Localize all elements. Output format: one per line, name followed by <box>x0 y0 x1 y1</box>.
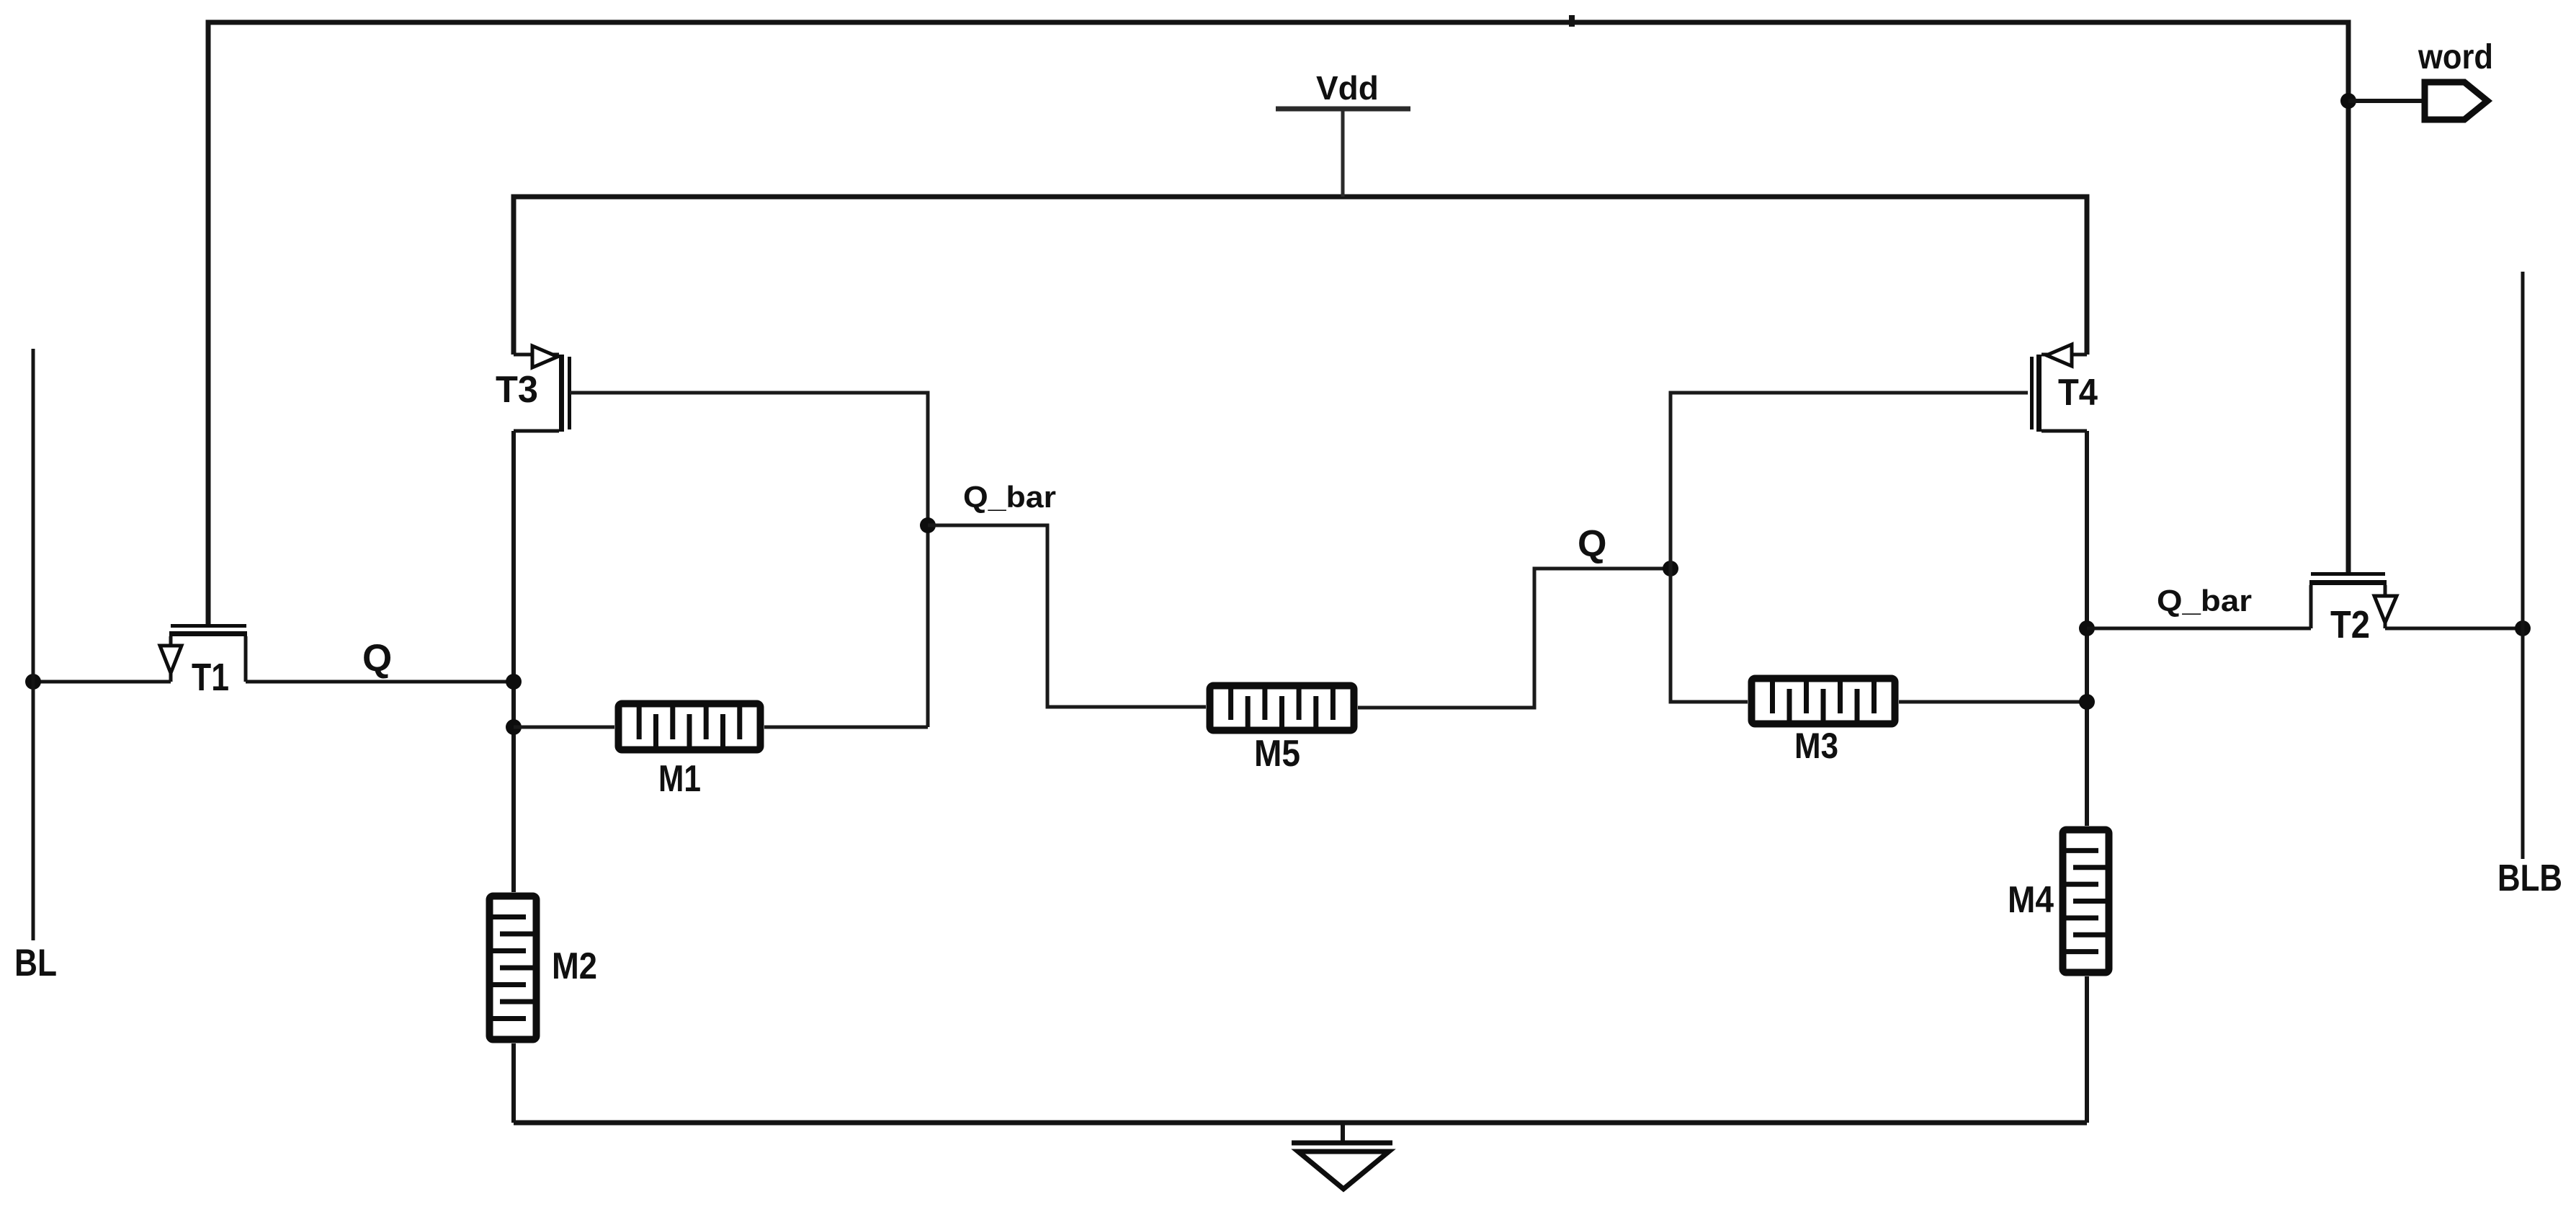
node BLB junction <box>2515 620 2531 636</box>
transistor T3 channel bar <box>559 355 564 432</box>
transistor T3 gate bar <box>568 357 571 429</box>
transistor T4 gate bar <box>2030 357 2034 429</box>
wire M3 right lead <box>1899 700 2087 704</box>
wire bottom rail <box>514 1121 2087 1126</box>
wire T2 to BLB <box>2385 627 2523 631</box>
svg-text:M3: M3 <box>1794 726 1838 766</box>
svg-text:M4: M4 <box>2008 879 2054 921</box>
wire BL line <box>32 349 35 940</box>
port word pointer <box>2425 82 2487 120</box>
transistor T2 left stub <box>2309 585 2313 628</box>
transistor T4 source stub <box>2041 353 2087 357</box>
node M1 branch <box>506 719 522 735</box>
svg-text:M2: M2 <box>552 945 597 987</box>
power Vdd symbol bar <box>1276 107 1410 112</box>
svg-text:M1: M1 <box>658 758 701 800</box>
transistor T2 right stub <box>2384 585 2387 628</box>
wire T1 to Q column <box>246 680 514 684</box>
wire Q_bar to T2 <box>2087 627 2311 631</box>
svg-text:Q: Q <box>1578 523 1606 565</box>
wire T4 drain column <box>2085 431 2089 826</box>
svg-text:word: word <box>2418 38 2493 76</box>
node tick on top rail <box>1569 15 1575 27</box>
ground stem <box>1341 1123 1345 1144</box>
transistor T2 arrow <box>2374 596 2397 623</box>
transistor T4 channel bar <box>2036 355 2041 432</box>
node Q column upper <box>506 674 522 690</box>
node Q right <box>1663 561 1678 576</box>
ground triangle <box>1298 1152 1389 1189</box>
svg-text:Vdd: Vdd <box>1316 69 1379 107</box>
node word junction <box>2340 93 2356 109</box>
transistor T3 drain stub <box>514 429 559 433</box>
transistor T1 left stub <box>169 636 173 682</box>
transistor T3 source stub <box>514 353 559 357</box>
node Q_bar right <box>2079 620 2095 636</box>
wire top rail <box>208 22 2348 624</box>
transistor T1 gate bar <box>171 624 246 628</box>
wire M1 left lead <box>514 726 614 729</box>
memristor M5 <box>1210 686 1354 731</box>
node BL junction <box>25 674 41 690</box>
wire BLB line <box>2521 272 2525 859</box>
wire M4 to bottom rail <box>2085 976 2089 1123</box>
transistor T1 channel bar <box>169 631 247 636</box>
transistor T4 drain stub <box>2041 429 2087 433</box>
svg-text:T3: T3 <box>496 369 538 411</box>
svg-text:T1: T1 <box>192 656 229 699</box>
transistor T1 right stub <box>244 636 248 682</box>
svg-text:Q_bar: Q_bar <box>2157 584 2252 618</box>
memristor M1 <box>619 704 761 750</box>
node M3 right junction <box>2079 694 2095 710</box>
svg-text:Q: Q <box>362 637 392 680</box>
transistor T2 gate bar <box>2311 572 2385 576</box>
wire Vdd rail <box>514 197 2087 355</box>
wire Q_bar jog to M5 <box>928 525 1206 707</box>
power Vdd stem <box>1341 109 1345 197</box>
wire BL to T1 <box>33 680 171 684</box>
wire M5 to Q node <box>1358 569 1671 708</box>
wire T3 drain column <box>511 431 516 892</box>
memristor M3 <box>1752 679 1895 724</box>
transistor T3 source arrow <box>532 346 558 368</box>
ground bar <box>1292 1141 1392 1146</box>
wire T3 gate to Q_bar column <box>570 393 928 727</box>
svg-text:M5: M5 <box>1254 733 1300 775</box>
memristor M4 <box>2063 830 2109 973</box>
wire T4 gate column <box>1671 393 2028 702</box>
wire M2 to bottom rail <box>511 1043 516 1123</box>
node Q_bar left <box>920 517 936 533</box>
wire M1 right lead <box>764 726 928 729</box>
transistor T4 source arrow <box>2047 344 2072 366</box>
svg-text:T2: T2 <box>2330 603 2370 646</box>
svg-text:Q_bar: Q_bar <box>963 480 1056 514</box>
memristor M2 <box>490 896 537 1040</box>
svg-text:BLB: BLB <box>2497 858 2562 899</box>
svg-text:BL: BL <box>14 942 57 984</box>
transistor T1 arrow <box>160 646 182 673</box>
transistor T2 channel bar <box>2309 580 2387 585</box>
wire word branch <box>2348 99 2423 103</box>
svg-text:T4: T4 <box>2058 372 2098 414</box>
